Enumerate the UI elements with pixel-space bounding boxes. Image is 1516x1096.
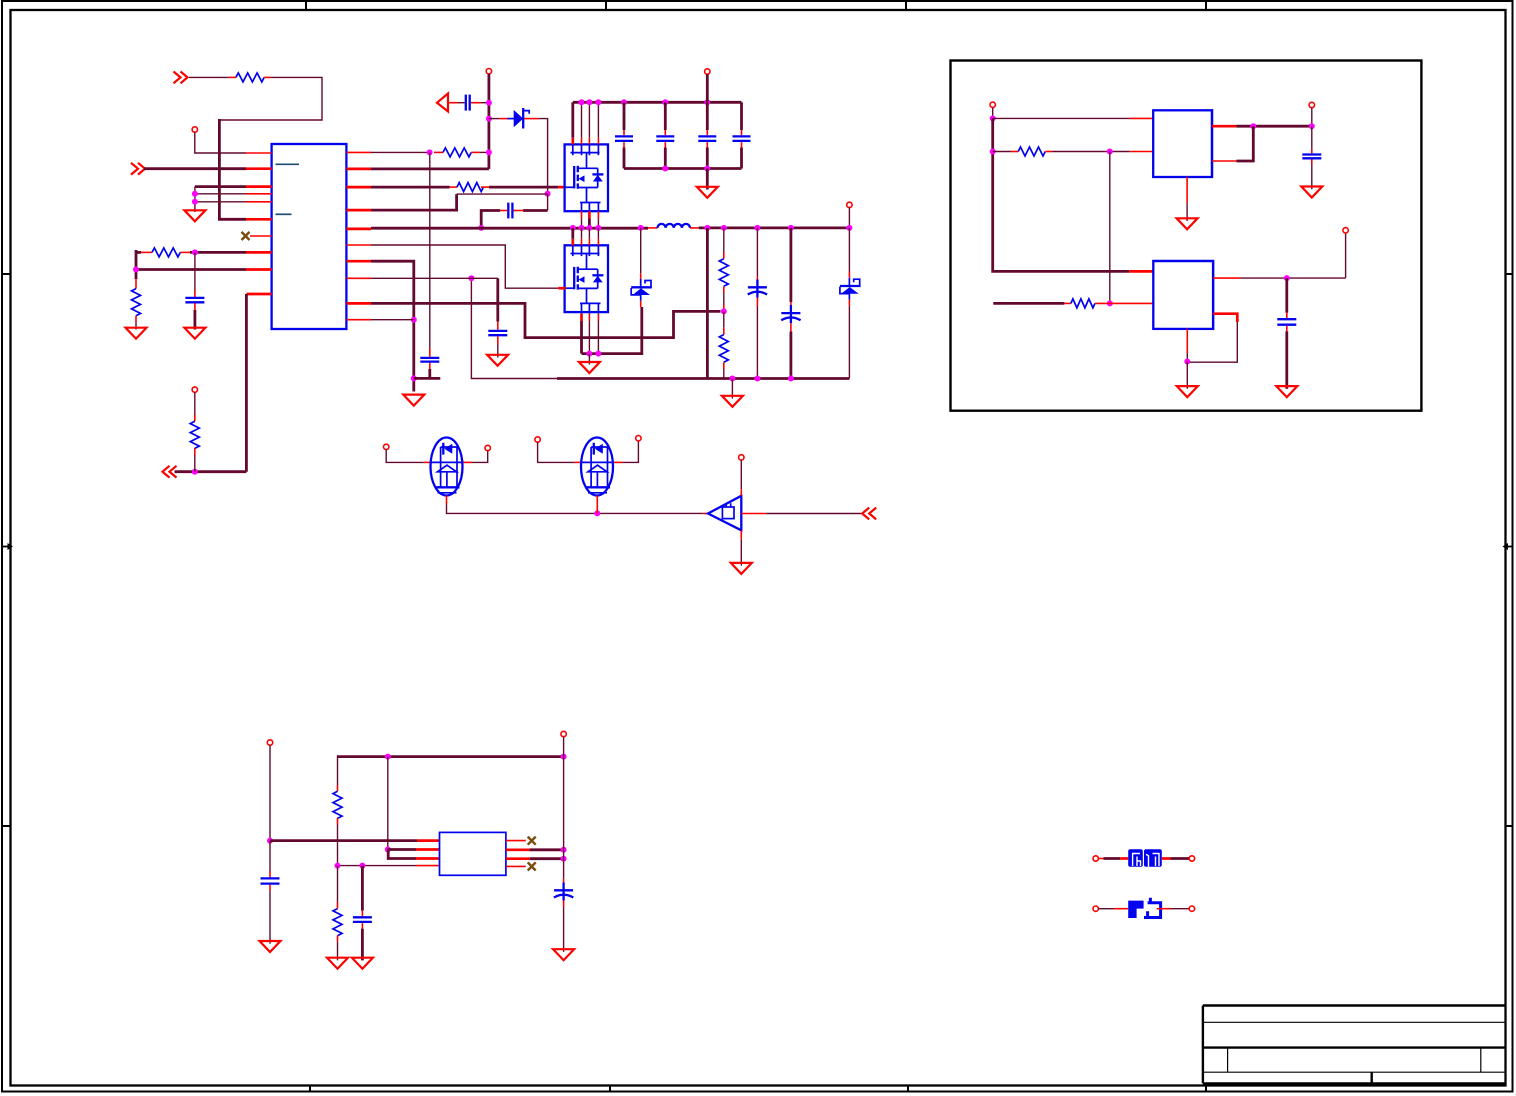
wire T15 down column <box>563 737 565 879</box>
title block divider cell left <box>1227 1048 1229 1073</box>
wire U1 pin14 down to ground <box>371 261 414 391</box>
capacitor C2 lead red right <box>514 210 524 212</box>
ground GND8 <box>403 395 424 406</box>
inductor L1 red right <box>690 227 699 229</box>
terminal T3 (VCC) <box>486 69 491 74</box>
junction U3 gnd <box>1184 359 1190 365</box>
U3 top edge heavy <box>1152 260 1214 262</box>
U1 left pin 4 stub <box>246 193 272 195</box>
zone tick top 1 <box>305 1 307 10</box>
junction pin5 column <box>192 199 198 205</box>
wire column C13 down <box>194 252 196 290</box>
wire U3 gnd down <box>1186 362 1188 389</box>
wire C4 to ground <box>497 345 499 358</box>
Q2 drain feed 3 red <box>588 239 590 246</box>
FB2 right lead red <box>1157 908 1171 910</box>
junction SW dot Q2-3 <box>586 225 592 231</box>
junction U5 pin2 node <box>385 847 391 853</box>
Q1 top strip divider 3 <box>588 144 590 155</box>
FB tap red <box>723 305 725 312</box>
buffer supply red stub <box>740 489 742 496</box>
U5 right pin4 red stub <box>506 865 526 867</box>
D4 top diode bar <box>442 443 444 455</box>
wire T14 down <box>269 745 271 840</box>
U5 right pin2 red stub <box>506 848 530 851</box>
Q2 drain lead <box>578 268 598 270</box>
fold-back wire <box>1236 126 1253 161</box>
capacitor C7 red top <box>706 130 708 135</box>
comp branch wire <box>414 369 441 378</box>
Q2 body diode lead <box>597 269 599 288</box>
regulator U2 body <box>1153 110 1212 177</box>
title block row line 4 <box>1203 1071 1506 1073</box>
wire bank to ground <box>706 169 709 190</box>
resistor R11 red top <box>337 785 339 791</box>
capacitor C8 red top <box>741 130 743 135</box>
FB1 left red stub <box>1099 858 1104 860</box>
mid-page arrow left edge <box>3 543 13 550</box>
Q2 source dropper <box>586 288 588 303</box>
Q2 source arrow <box>579 276 585 283</box>
junction SW dot Q2-4 <box>595 225 601 231</box>
capacitor C4 plate top <box>488 330 507 332</box>
wire U5 pin2 to column <box>530 848 564 851</box>
terminal T4 (VIN) <box>705 69 710 74</box>
Q1 gate bar <box>573 166 575 188</box>
D5 top rail <box>591 446 607 448</box>
wire U1 pin10 down to lower connector line <box>245 294 248 472</box>
wire D5 to terminal T9 <box>623 441 639 463</box>
wire T10 down <box>740 460 742 489</box>
heavy return drop wire <box>706 228 709 379</box>
Q2 source pin 2 red <box>588 314 590 321</box>
Q2 bottom strip divider 1 <box>581 303 583 313</box>
capacitor C7 plate bottom <box>698 140 716 142</box>
resistor R9 red right <box>1045 151 1052 153</box>
terminal T6 <box>384 444 389 449</box>
wire corner up to terminal T13 <box>1345 233 1347 278</box>
Q1 drain feed 4 red <box>597 138 599 145</box>
wire U1 pin18 to gate resistor <box>371 186 450 189</box>
wire C11 to ground <box>269 891 271 944</box>
wire R12 to ground <box>337 942 339 961</box>
U2 pin1 red stub <box>1130 117 1154 119</box>
zener D1 flag mark <box>523 111 529 114</box>
wire R7 to FB tap <box>723 293 725 305</box>
wire FB tap down <box>723 311 725 327</box>
terminal T16 <box>1093 856 1098 861</box>
title block row line 3 <box>1203 1046 1506 1048</box>
wire R9 to U2 pin2 <box>1053 151 1130 153</box>
capacitor C6 plate bottom <box>656 140 674 142</box>
resistor R2 lead red right <box>180 251 190 253</box>
D5 internal rail <box>582 461 614 463</box>
U1 internal label dash 1 <box>276 163 300 165</box>
D4 bottom bar 1 <box>435 486 460 488</box>
capacitor C10 red top <box>1286 313 1288 318</box>
Q1 bottom strip divider 2 <box>588 203 590 212</box>
divider feed wire <box>723 228 725 252</box>
wire U5 pin3 fold up <box>388 850 416 859</box>
capacitor C2 plate left <box>507 203 509 219</box>
wire R12 column <box>337 866 339 902</box>
U2 right edge heavy <box>1211 109 1213 178</box>
wire T12 down <box>1311 108 1313 126</box>
capacitor CB1 plate <box>748 286 767 288</box>
wire C10 to ground <box>1285 331 1288 389</box>
filter FB1 body right <box>1144 849 1162 867</box>
Q2 source pin 3 wire <box>597 321 599 354</box>
junction pin9/R3 <box>133 267 139 273</box>
capacitor CB2 bottom wire <box>790 332 793 379</box>
U5 pin4 red stub <box>416 865 440 867</box>
resistor R12 red bottom <box>337 935 339 942</box>
junction bootstrap node <box>545 191 551 197</box>
Q2 top strip divider 3 <box>588 245 590 256</box>
junction gnd bus ground stem <box>729 376 735 382</box>
resistor R2 lead red left <box>141 251 152 253</box>
wire C9 to ground <box>1311 164 1313 189</box>
terminal T7 <box>485 445 490 450</box>
Q1 source pin 3 red <box>597 211 599 218</box>
junction common line D5 <box>594 510 600 516</box>
resistor R10 red right / U3 pin2 stub <box>1095 302 1153 304</box>
wire U1 pin20 to FB node <box>371 151 430 153</box>
mid-page arrow right edge <box>1503 543 1513 550</box>
wire down to U1 pin 6 <box>219 119 246 219</box>
zone tick bottom 3 <box>907 1086 909 1092</box>
Q1 source pin 1 wire <box>581 219 583 228</box>
Q2 gate lead <box>566 287 575 289</box>
zone tick bottom 2 <box>609 1086 611 1092</box>
wire C12 column <box>361 866 364 911</box>
D5 left vertical <box>590 447 592 487</box>
schottky D2 tail bracket <box>631 288 641 295</box>
U1 left pin 10 stub <box>246 293 271 296</box>
capacitor C6 bottom wire <box>664 148 667 169</box>
schottky D2 lead blue top <box>640 279 642 287</box>
filter FB2 body left <box>1128 901 1143 918</box>
U1 left pin 5 stub <box>246 201 272 203</box>
capacitor C11 red bottom <box>269 885 271 891</box>
zone tick right lower <box>1506 825 1514 827</box>
capacitor C9 red top <box>1311 150 1313 154</box>
terminal T18 <box>1093 906 1098 911</box>
capacitor CB1 curved plate <box>748 292 767 295</box>
terminal T11 <box>990 102 995 107</box>
Q2 source pin 2 wire <box>588 321 590 354</box>
U2 sense pin red stub <box>1212 160 1236 162</box>
capacitor C12 plate bottom <box>353 921 372 923</box>
junction gnd bus CB2 <box>788 376 794 382</box>
Q2 source pin 1 wire <box>580 321 583 354</box>
junction bus dot C5 <box>621 99 627 105</box>
wire U1 pin3 to ground column <box>195 185 246 188</box>
wire column to zener D1 <box>489 118 499 120</box>
terminal T10 (buffer supply) <box>739 455 744 460</box>
capacitor C13 lead red top <box>194 290 196 297</box>
capacitor C5 plate top <box>615 135 633 137</box>
wire U5 pin3 to column <box>530 857 564 860</box>
capacitor C1 plate right <box>469 95 471 111</box>
resistor R8 red top <box>723 328 725 335</box>
wire over to bootstrap junction <box>457 193 548 195</box>
wire D4 bottom to common line <box>447 504 703 513</box>
U5 right pin3 red stub <box>506 857 530 860</box>
junction source bus 1 <box>586 351 592 357</box>
U3 pin1 red stub <box>1129 270 1153 273</box>
Q2 channel segment 2 <box>577 276 579 283</box>
buffer U4 ground red stub <box>740 530 742 540</box>
junction out dot D3 <box>846 225 852 231</box>
capacitor CB2 red bottom <box>790 323 792 331</box>
junction column pin3 <box>561 856 567 862</box>
U1 right pin 13 stub <box>346 277 371 279</box>
junction D1 column <box>486 116 492 122</box>
U1 left pin 2 stub <box>246 167 272 170</box>
zener D3 flag <box>854 279 860 286</box>
junction R2/C13 <box>192 249 198 255</box>
resistor R10 red left <box>1064 302 1071 304</box>
resistor R6 lead red right <box>481 186 489 188</box>
Q1 top strip divider 2 <box>581 144 583 155</box>
U1 right pin 16 stub <box>346 228 371 231</box>
ground GND9 <box>731 563 752 574</box>
wire node to U5 pin2 <box>388 848 416 851</box>
zone tick top 4 <box>1205 1 1207 10</box>
junction bus T15 stem <box>561 754 567 760</box>
Q2 source lead <box>578 287 598 289</box>
title block left edge <box>1202 1006 1204 1084</box>
wire junction to R9 <box>993 151 1011 153</box>
filter FB1 body left <box>1128 849 1143 867</box>
wire U1 pin19 to VCC column end <box>371 167 489 170</box>
terminal T1 <box>192 127 197 132</box>
U1 left pin 3 stub <box>246 185 272 188</box>
Q2 top strip divider 2 <box>581 245 583 256</box>
no-connect X on U5 right pin1 <box>528 837 536 845</box>
title block top edge <box>1203 1004 1506 1006</box>
capacitor C8 top wire <box>740 102 743 130</box>
connector chevron J3 (bottom left, pointing left) <box>163 466 177 478</box>
junction out dot heavy drop <box>704 225 710 231</box>
corner wire R2 down to pin9 wire <box>135 250 138 279</box>
junction sense branch <box>1107 149 1113 155</box>
ground GND16 <box>352 958 373 969</box>
D5 bottom diode triangle (open) <box>588 465 607 472</box>
Q2 bottom strip divider 3 <box>597 303 599 313</box>
resistor R2 <box>152 248 180 257</box>
capacitor C4 red bottom <box>497 336 499 344</box>
capacitor CB1 top wire <box>756 228 758 277</box>
D5 top diode triangle <box>595 444 603 454</box>
wire J3 to corner <box>175 470 247 473</box>
resistor R1 lead red right <box>264 76 270 78</box>
U2 output pin red stub <box>1212 125 1236 128</box>
capacitor C7 top wire <box>706 102 709 130</box>
resistor R1 <box>236 73 264 82</box>
resistor R11 (vertical) <box>333 791 342 818</box>
schottky D2 triangle <box>633 288 651 295</box>
wire U5 pin4 left <box>338 865 417 867</box>
U1 right pin 18 stub <box>346 186 371 189</box>
junction bus dot 1 <box>579 99 585 105</box>
U1 right pin 17 stub <box>346 209 371 212</box>
junction source bus 2 <box>595 351 601 357</box>
junction out dot divider <box>721 225 727 231</box>
Q1 source pin 3 wire <box>597 219 599 228</box>
D5 red stub right <box>614 461 623 463</box>
capacitor C2 wire right <box>523 209 548 212</box>
U1 left pin 6 stub <box>246 218 272 221</box>
junction T12 output node <box>1309 123 1315 129</box>
resistor R2 lead wire from corner <box>136 251 141 254</box>
Q1 source dropper <box>586 188 588 203</box>
input bank bottom bus <box>624 167 742 170</box>
resistor R1 lead red left <box>229 76 236 78</box>
Q2 drain feed 2 red <box>581 239 583 246</box>
input bus top <box>573 101 742 104</box>
wire J1 to R1 <box>189 76 229 78</box>
capacitor C2 lead red left <box>500 210 507 212</box>
ground GND6 <box>722 396 743 407</box>
wire U4 to ground <box>740 540 742 566</box>
Q1 drain feed 3 red <box>588 138 590 145</box>
resistor R3 (vertical) <box>132 289 141 316</box>
memory U5 body <box>440 832 506 875</box>
transistor Q1 package outline <box>565 144 608 211</box>
capacitor CB3 red top <box>563 879 565 883</box>
junction pin4/R12 <box>335 863 341 869</box>
junction C1 column <box>486 100 492 106</box>
Q2 drain feed 3 <box>588 228 590 239</box>
Q1 channel segment 3 <box>577 183 579 188</box>
no-connect X on U5 right pin4 <box>528 862 536 870</box>
capacitor C5 top wire <box>623 102 626 130</box>
wire C2 left down to SW bus <box>481 211 500 228</box>
Q2 gate bar <box>573 267 575 289</box>
resistor R7 (vertical) <box>719 259 728 287</box>
zener D3 lead blue bottom <box>848 294 850 300</box>
junction pin4/C12 <box>359 863 365 869</box>
transistor Q2 package outline <box>565 245 608 312</box>
U5 pin1 red stub <box>417 839 439 842</box>
junction bottom bus C6 <box>662 166 668 172</box>
Q2 source bus <box>582 307 642 354</box>
op-amp U1 controller IC body <box>272 144 347 329</box>
ground GND17 <box>553 949 574 960</box>
wire R3 to ground <box>135 322 137 330</box>
sub-circuit frame <box>951 61 1422 411</box>
U3 ground pin red <box>1186 329 1188 353</box>
capacitor C9 plate bottom <box>1302 157 1321 159</box>
ground GND4 <box>697 187 718 198</box>
capacitor C5 bottom wire <box>623 148 626 169</box>
junction bus dot C6 <box>662 99 668 105</box>
capacitor C8 red bottom <box>741 142 743 147</box>
D4 left vertical <box>440 447 442 487</box>
FB1 right lead red <box>1162 857 1171 860</box>
buffer U4 tick 1 <box>725 503 727 507</box>
junction out dot CB1 <box>754 225 760 231</box>
U3 sense fold-down wire <box>1187 322 1237 362</box>
buffer U4 output red stub <box>741 513 766 515</box>
capacitor CB3 red bottom <box>563 901 565 907</box>
capacitor C6 red bottom <box>664 142 666 147</box>
zone tick left lower <box>2 825 11 827</box>
D5 bottom bar 2 <box>588 492 607 494</box>
Q1 drain feed 3 <box>588 102 590 138</box>
capacitor C3 plate top <box>420 357 439 359</box>
zener D3 red top <box>848 272 850 278</box>
D5 bottom bar 1 <box>585 486 610 488</box>
capacitor C3 red top <box>429 348 431 357</box>
resistor R12 red top <box>337 902 339 909</box>
Q1 drain feed 1 from bus <box>571 102 574 138</box>
capacitor C11 red top <box>269 872 271 878</box>
wire corner down R11 <box>337 755 339 785</box>
heavy column down <box>993 118 1129 271</box>
junction SW dot Q2-2 <box>579 225 585 231</box>
schottky D2 lead blue bottom <box>640 295 642 301</box>
Q2 drain feed 4 red <box>597 239 599 246</box>
capacitor C11 feed <box>269 841 271 872</box>
resistor R4 lead red bottom <box>194 448 196 455</box>
wire R5 to VCC column <box>480 151 489 153</box>
U3 right edge heavy <box>1212 260 1214 330</box>
capacitor C10 plate top <box>1277 318 1296 320</box>
schottky D2 red top <box>640 273 642 279</box>
terminal T15 <box>561 731 566 736</box>
capacitor C3 plate bottom <box>420 360 439 362</box>
junction FB comp node <box>427 149 433 155</box>
capacitor C7 bottom wire <box>706 148 709 169</box>
wire output node down to C9 <box>1311 126 1313 150</box>
Q1 gate lead <box>566 186 575 188</box>
wire T16 to FB1 <box>1104 857 1121 860</box>
Q2 drain feed 4 <box>597 228 599 239</box>
capacitor C9 red bottom <box>1311 160 1313 165</box>
Q1 top strip divider 4 <box>597 144 599 155</box>
junction U2 fold-back <box>1250 123 1256 129</box>
D4 right vertical <box>456 447 458 487</box>
Q1 drain lead <box>578 167 598 169</box>
resistor R5 lead red left <box>434 151 443 153</box>
capacitor C8 plate bottom <box>733 140 751 142</box>
zener D3 bottom wire <box>848 306 850 379</box>
ground GND12 <box>1177 386 1198 397</box>
filter FB2 body right outline <box>1144 898 1161 918</box>
wire to U2 pin1 <box>993 117 1130 119</box>
capacitor C5 red bottom <box>623 142 625 147</box>
wire CB3 to ground <box>563 907 565 952</box>
junction bus dot 3 <box>595 99 601 105</box>
capacitor C13 lead red bottom <box>194 303 196 310</box>
Q2 source pin 1 red <box>580 314 583 321</box>
U1 right pin 12 stub <box>346 302 371 305</box>
capacitor C12 red bottom <box>361 923 363 929</box>
Q2 source pin 3 red <box>597 314 599 321</box>
Q2 top strip divider 1 <box>572 245 574 256</box>
junction C10 tap <box>1284 275 1290 281</box>
Q2 gate red stub <box>558 287 565 290</box>
Q2 bottom strip divider 2 <box>588 303 590 313</box>
inductor L1 <box>658 224 690 228</box>
capacitor CB2 plate <box>781 312 800 314</box>
junction gnd bus CB1 <box>754 376 760 382</box>
resistor R9 red left <box>1011 151 1018 153</box>
junction bus R13 <box>385 754 391 760</box>
